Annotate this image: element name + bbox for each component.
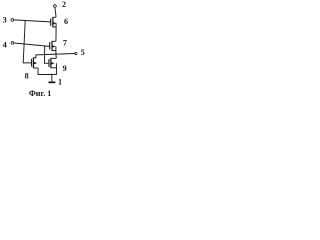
terminal 4 [11, 42, 14, 45]
wire output node down to drain of transistor 9 [55, 54, 57, 58]
svg-text:8: 8 [25, 72, 29, 81]
wire output node down-left to transistor 8 [33, 55, 35, 58]
common bus bar 1 [48, 82, 55, 84]
terminal 2 [54, 5, 57, 8]
wire V1 from input 3 down to gate of transistor 8 [23, 21, 31, 63]
transistor 9 substrate arrow [51, 62, 54, 65]
transistor 6 channel [52, 17, 54, 27]
junction dot input 4 wire [44, 45, 45, 46]
transistor 9 source stub [51, 67, 57, 69]
svg-text:7: 7 [63, 39, 67, 48]
wire source of 9 to bottom rail [52, 63, 57, 74]
svg-text:2: 2 [62, 0, 66, 9]
svg-text:4: 4 [3, 41, 7, 50]
wire source of 6 to drain of 7 [55, 23, 57, 41]
junction dot output node [55, 54, 56, 55]
svg-text:6: 6 [64, 17, 68, 26]
transistor 6 source stub [53, 26, 56, 28]
wire source of 7 to output node [55, 46, 57, 54]
transistor 6 substrate arrow [53, 22, 56, 25]
wire input 4 to gate of transistor 7 [14, 43, 49, 46]
junction dot input 3 wire [25, 20, 26, 21]
transistor 8 channel [32, 57, 34, 68]
transistor 9 gate bar [48, 59, 50, 67]
transistor 7 gate bar [49, 42, 51, 49]
transistor 7 substrate arrow [52, 45, 55, 48]
wire V2 from input 4 down to gate of transistor 9 [45, 46, 49, 63]
wire output node to terminal 5 [36, 54, 75, 55]
svg-text:5: 5 [81, 48, 85, 57]
wire bottom rail to common bus 1 [51, 75, 53, 82]
transistor 8 substrate arrow [34, 62, 37, 65]
terminal 3 [11, 19, 14, 22]
wire terminal 2 to drain of transistor 6 [55, 8, 56, 18]
transistor 9 drain stub [51, 57, 56, 59]
transistor 7 source stub [52, 50, 56, 52]
junction dot bottom rail [51, 74, 52, 75]
svg-text:9: 9 [63, 64, 67, 73]
svg-text:Фиг. 1: Фиг. 1 [29, 89, 51, 98]
transistor 7 channel [51, 41, 53, 51]
transistor 8 gate bar [31, 59, 33, 67]
transistor 6 drain stub [53, 16, 56, 18]
svg-text:3: 3 [3, 15, 7, 24]
svg-text:1: 1 [58, 78, 62, 87]
transistor 7 drain stub [52, 40, 56, 42]
wire input 3 to gate of transistor 6 [14, 20, 50, 22]
transistor 6 gate bar [50, 19, 52, 26]
wire source of 8 to bottom rail [38, 68, 52, 75]
terminal 5 [75, 52, 77, 54]
transistor 8 source stub [33, 67, 38, 69]
transistor 9 channel [50, 58, 52, 68]
